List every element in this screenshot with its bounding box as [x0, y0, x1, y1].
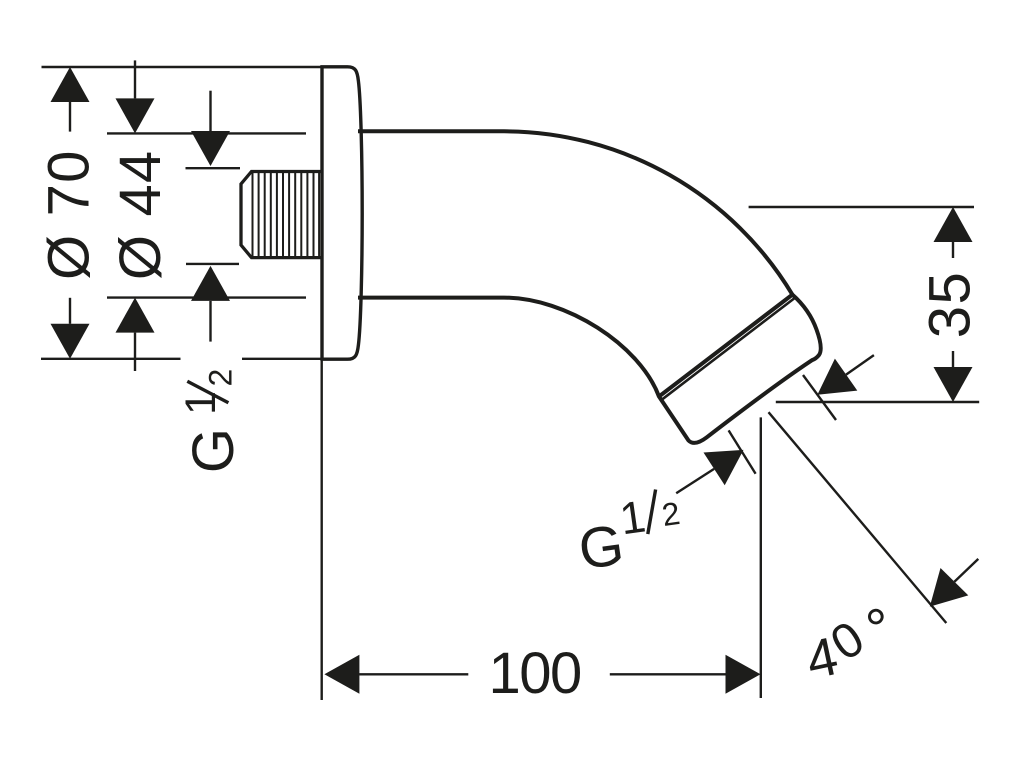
svg-text:Ø 44: Ø 44 — [108, 150, 173, 281]
stem of Ø70 down arrow — [69, 298, 71, 324]
svg-text:35: 35 — [918, 271, 983, 339]
thread hatch lines — [253, 173, 320, 256]
shower arm lower contour — [358, 298, 659, 397]
outlet rim double line — [662, 298, 795, 400]
oblique tick S2 at outlet face — [729, 430, 756, 473]
arrow Ø70 up — [51, 67, 90, 102]
arrow 35 up — [934, 207, 973, 242]
dimension line 35 top — [749, 206, 974, 208]
arrow of outlet G1/2 leader — [704, 450, 744, 485]
label 40 degrees — [801, 595, 898, 691]
oblique tick S1 on 35 bottom line — [803, 375, 836, 420]
wall plane extension line (left, for 100) — [321, 66, 323, 700]
arrow thread G1/2 up — [191, 266, 230, 301]
leader line of outlet G1/2 label — [676, 469, 714, 493]
stem of Ø70 up arrow — [69, 102, 71, 132]
stem of 35 down arrow — [952, 351, 954, 367]
threaded nipple G1/2 outline — [241, 172, 321, 258]
svg-text:Ø 70: Ø 70 — [37, 149, 102, 280]
40 degree dimension diagonal — [769, 412, 947, 623]
tail of 40 degree arrow — [954, 559, 978, 582]
svg-text:1: 1 — [177, 391, 225, 415]
label 35 — [918, 271, 983, 339]
arrow at 40 degree diagonal — [930, 568, 969, 607]
tick line thread G1/2 bottom — [186, 263, 239, 265]
stem of 35 up arrow — [952, 242, 954, 258]
label Ø70 — [37, 149, 102, 280]
tail of arrow at oblique tick S1 — [846, 355, 874, 375]
arrow thread G1/2 down — [191, 131, 230, 166]
svg-text:2: 2 — [202, 369, 238, 387]
dimension line 100 (right segment) — [610, 673, 727, 675]
dimension line Ø44 top extension — [107, 132, 306, 134]
arrow at oblique tick S1 — [817, 359, 857, 395]
arrow Ø44 down — [116, 98, 155, 133]
label G 1/2 (wall thread) — [177, 369, 246, 473]
dimension line Ø70 bottom extension (right of G1/2 text) — [242, 358, 321, 360]
outlet end cap outline — [659, 295, 821, 443]
stem of Ø44 down arrow — [134, 60, 136, 98]
dimension line Ø44 bottom extension — [107, 296, 306, 298]
arrow Ø44 up — [116, 298, 155, 333]
arrow 100 left — [324, 655, 359, 694]
stem of thread G1/2 down arrow — [209, 91, 211, 131]
arrow 35 down — [934, 367, 973, 402]
dimension line Ø70 bottom extension (left of G1/2 text) — [41, 358, 181, 360]
wall flange outline — [322, 67, 362, 359]
dimension line 100 (left segment) — [359, 673, 468, 675]
tick line thread G1/2 top — [186, 167, 241, 169]
svg-text:100: 100 — [489, 641, 581, 706]
arrow 100 right — [726, 655, 761, 694]
label G 1/2 (outlet) — [575, 490, 682, 583]
label Ø44 — [108, 150, 173, 281]
dimension line 35 bottom — [776, 401, 979, 403]
shower arm upper contour — [358, 131, 792, 294]
svg-text:G: G — [575, 513, 628, 583]
stem of thread G1/2 up arrow — [209, 301, 211, 342]
arrow Ø70 down — [51, 324, 90, 359]
stem of Ø44 up arrow — [134, 333, 136, 371]
dimension line Ø70 top extension — [42, 66, 322, 68]
svg-text:G: G — [181, 428, 246, 473]
outlet axis extension line (right, for 100) — [760, 417, 762, 698]
